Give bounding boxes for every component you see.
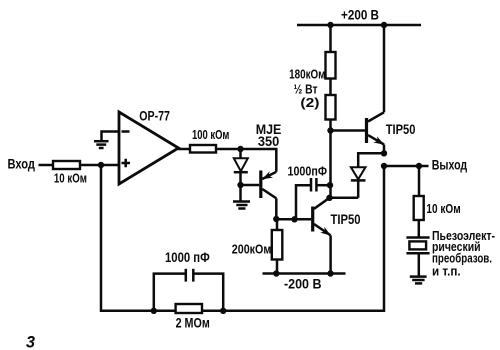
wire +200V rail [297,24,421,27]
svg-text:10 кОм: 10 кОм [426,201,460,216]
resistor R3 200кОм [272,230,283,260]
op-amp U1 OP-77 [119,112,179,184]
wire C3 branch [154,274,223,311]
wire R3 leads [276,219,279,274]
wire R4 top lead [418,166,421,196]
op-amp minus sign [122,130,130,133]
diode D1 [234,149,248,185]
svg-text:1000 пФ: 1000 пФ [165,250,210,265]
ground G1 at op-amp minus input [94,141,109,148]
wire R2 to node A [216,148,241,151]
node A junction after R2 [237,146,243,152]
node junction feedback left [151,308,157,314]
wire Q3 base row [331,129,366,132]
node junction collector row [326,195,332,201]
node B junction below D1 [237,182,243,188]
svg-text:350: 350 [258,134,279,149]
wire collector row to D2 [330,197,359,200]
wire Q3 emitter down [383,145,386,154]
wire -200V rail [263,272,346,275]
wire node row to Q2 base [276,218,311,221]
node junction rail right [381,22,387,28]
node junction R3 on -200V rail [273,270,279,276]
svg-text:1000пФ: 1000пФ [288,163,328,178]
resistor R7 180кОм lower [326,95,336,120]
node D junction on base row [291,216,297,222]
wire op-amp minus input to ground [102,132,120,141]
resistor R6 180кОм upper [326,52,336,79]
wire feedback loop: down, bottom run, up to output node [101,165,384,311]
svg-text:200кОм: 200кОм [232,241,271,256]
op-amp plus sign [122,159,131,167]
wire R4 to piezo [418,220,421,238]
diode D2 [351,167,366,198]
transistor Q1 MJE350 (PNP) [261,171,277,199]
node junction Q3 base row [327,127,333,133]
wire op-amp output [178,148,190,151]
wire Q1 collector down [275,198,278,219]
transistor Q3 TIP50 (NPN, upper) [367,112,385,144]
wire node A to Q1 emitter [241,149,277,172]
svg-text:Вход: Вход [8,156,36,171]
node C junction at Q1 collector bottom [273,216,279,222]
wire resistor chain vertical [329,25,332,198]
capacitor C2 1000пФ [311,178,316,192]
svg-text:Выход: Выход [432,158,468,173]
node junction rail left [327,22,333,28]
svg-text:180кОм: 180кОм [289,66,325,81]
node input junction [98,162,104,168]
svg-text:100 кОм: 100 кОм [192,128,229,142]
node junction feedback right [220,308,226,314]
resistor R2 100 кОм [190,145,216,153]
svg-text:TIP50: TIP50 [386,122,416,137]
resistor R4 10 кОм [414,196,424,220]
svg-text:+200 В: +200 В [341,8,379,23]
ground G2 below D1 [233,202,250,209]
svg-text:OP-77: OP-77 [139,108,170,123]
wire emitter node to D2 [358,153,384,167]
ground G3 below piezo [410,277,427,284]
svg-text:и т.п.: и т.п. [432,264,461,279]
wire input lead [39,164,54,167]
wire Q2 emitter down to rail [329,235,332,273]
svg-text:(2): (2) [300,95,319,110]
node junction emitter [381,150,387,156]
node junction output [381,163,387,169]
svg-text:TIP50: TIP50 [331,212,361,227]
piezo transducer BQ1 [406,238,429,254]
svg-text:10 кОм: 10 кОм [54,171,87,186]
capacitor C3 1000 пФ feedback [186,269,194,282]
wire Q3 collector up to +200V rail [383,25,386,112]
wire R1 to op-amp plus input [80,164,119,167]
wire C2 left plate down to base row [296,185,311,219]
node junction R4 tap [416,163,422,169]
resistor R5 2 МОм [176,304,202,313]
wire output row [384,165,429,168]
svg-text:3: 3 [26,334,35,350]
transistor Q2 TIP50 (NPN, lower) [313,198,331,236]
wire node B to ground [239,185,242,201]
svg-text:2 МОм: 2 МОм [176,316,210,331]
resistor R1 10 кОм [53,161,80,169]
node junction C2 right [327,182,333,188]
wire piezo to ground [418,253,421,276]
svg-text:-200 В: -200 В [284,277,322,292]
wire C2 right plate to chain [316,184,329,187]
wire node B to Q1 base [241,184,260,187]
node junction Q2 emitter on -200V rail [327,270,333,276]
